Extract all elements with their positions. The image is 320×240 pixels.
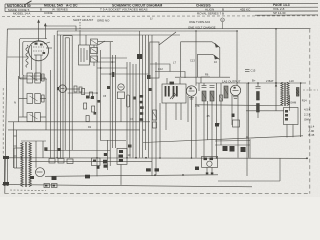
resistor R8 hatch <box>202 92 206 99</box>
line cord plug blob top <box>3 156 9 159</box>
tube V3 socket marks <box>189 98 194 100</box>
capacitor C15 plates <box>245 70 250 72</box>
tube V2b stem <box>120 99 122 122</box>
resistor row bottom right 1 <box>223 146 228 151</box>
value labels top area <box>158 59 217 77</box>
antenna coil shield box inner <box>23 42 44 77</box>
wire mid verticals cluster B <box>127 62 136 158</box>
wire padder bus vertical <box>22 76 24 117</box>
tiny labels mid <box>88 95 146 132</box>
wire long vertical v4 <box>50 70 52 158</box>
tube V4 stem <box>237 95 239 158</box>
wire long vertical v1 <box>18 76 20 122</box>
oscillator coil marks <box>81 48 87 62</box>
padder capacitor row 2 <box>19 94 46 104</box>
wire long vertical v5 <box>53 35 55 158</box>
wire diagonal to bus <box>159 32 176 45</box>
bottom margin dashed mark <box>10 189 46 192</box>
component box mid-bottom <box>117 148 127 164</box>
detector shield arrow outer <box>215 43 220 48</box>
header right table rule <box>255 14 318 16</box>
power transformer T4 primary winding <box>21 143 23 187</box>
resistor R11 dark <box>257 92 260 101</box>
B plus bus right <box>196 82 306 84</box>
wire diagonal near trimmers <box>98 41 105 45</box>
wire row bottom hline2 <box>215 144 250 146</box>
padder capacitor row 1 <box>19 73 46 83</box>
grid cap arrow left <box>37 19 40 40</box>
dashed speaker link <box>303 89 318 91</box>
detector shield box inner <box>198 54 220 77</box>
small blob y148 b <box>58 148 61 151</box>
wire x258 bottom <box>257 112 259 118</box>
oscillator shield box wall d <box>71 36 73 150</box>
resistor blob mid <box>103 160 107 164</box>
label box L5 <box>52 184 58 188</box>
blob in right-bottom box 2 <box>210 158 214 161</box>
wire long vertical v7 <box>60 35 62 158</box>
dark blob x112 <box>112 72 115 77</box>
right corner wire vertical <box>279 158 281 181</box>
wire mid verticals cluster A <box>97 42 116 166</box>
oscillator trimmer blob <box>137 54 142 59</box>
right corner wire horizontal <box>218 180 280 182</box>
wire vertical x276 from top border <box>275 29 277 111</box>
converter output shield box <box>150 42 159 78</box>
long sloped wire y142-136 <box>143 136 303 143</box>
antenna coil shield box outer <box>20 39 48 80</box>
wire vertical x196 lower <box>195 97 197 158</box>
coupling capacitor C10 <box>202 83 207 88</box>
component row y158 c <box>67 159 73 164</box>
capacitor C16 plates <box>256 83 261 88</box>
wire IF can leads <box>160 78 181 158</box>
stubs below box <box>207 168 212 173</box>
dark blob x215 <box>215 123 219 127</box>
tube V3 stem <box>191 96 193 158</box>
tube V2b oscillator triode <box>118 84 124 90</box>
tube V2b electrode <box>119 86 122 88</box>
oscillator component box <box>79 45 90 65</box>
wire vertical after V3 b <box>211 101 213 158</box>
wire vertical x216 <box>216 83 218 158</box>
tube V3 electrode <box>189 90 195 92</box>
grid lead V4 from top bus <box>236 31 238 85</box>
wire T3 leads <box>282 82 290 111</box>
wire antenna lead horizontal <box>45 26 76 31</box>
tube V2b socket box <box>117 92 124 99</box>
tube V4 output envelope <box>230 85 240 95</box>
wire vline x250 <box>249 139 251 158</box>
header right table row3 <box>273 11 286 15</box>
blob y95 a <box>86 96 89 99</box>
dark blob x107 <box>107 86 110 89</box>
C circle symbol <box>221 18 225 22</box>
dark blob x147 y75 <box>147 75 151 79</box>
wire x97 extension <box>96 158 98 176</box>
header rule line lower <box>5 10 318 13</box>
capacitor C11 <box>210 86 215 88</box>
detector shield arrow inner <box>214 55 219 60</box>
blob y95 b <box>91 96 94 99</box>
value label blobs column x140 <box>140 95 144 121</box>
component row y158 a <box>49 159 55 164</box>
wire tube stem b <box>40 61 42 82</box>
resistor row bottom right 2 <box>230 146 235 152</box>
wire secondary top bus <box>57 34 180 36</box>
wire hline y150.5 <box>46 150 110 152</box>
tube V5 marks <box>37 171 43 173</box>
resistor below IF can <box>153 110 157 120</box>
oscillator shield box top b <box>65 37 69 39</box>
wire transformer left leads <box>14 148 23 168</box>
tube V2 electrode <box>61 88 65 90</box>
wire horizontal y105.5 <box>195 104 282 107</box>
output transformer T3 secondary winding <box>287 83 289 106</box>
marks below box <box>206 172 214 174</box>
IF transformer T1 secondary winding <box>173 86 178 97</box>
volume control R10 <box>224 86 228 98</box>
wire vertical x232 <box>231 95 233 125</box>
small tube in box <box>207 161 212 166</box>
switch blob S1 <box>30 176 34 179</box>
wire verticals cluster C from top bus <box>140 31 157 176</box>
dark blob x128 y144 <box>128 145 132 148</box>
power transformer T4 core <box>25 142 28 187</box>
wire vertical x248.5 <box>248 83 250 158</box>
IF transformer T1 tuning arrows <box>170 93 177 99</box>
trimmer stack cluster <box>91 39 98 66</box>
tube V4 socket marks <box>233 97 238 99</box>
header rule line middle <box>5 6 318 9</box>
wire hline y71 <box>155 72 185 79</box>
label box L4 <box>44 184 50 188</box>
resistor R8 <box>202 91 206 101</box>
AVC bus lower <box>8 129 140 131</box>
padder capacitor row 3 <box>19 113 46 122</box>
wire hline y141 <box>215 140 250 143</box>
wire rectifier feeds <box>36 141 43 168</box>
oscillator shield box wall a <box>62 36 64 158</box>
blob x104 y153 <box>104 153 107 156</box>
dark blob x231 <box>232 114 235 118</box>
dark blob on ground bus 2 <box>155 168 160 171</box>
small box x232 <box>233 120 240 127</box>
sub header labels <box>73 17 224 30</box>
schematic outer border right (dashed) <box>309 29 311 194</box>
wire vertical x300.7 <box>300 83 302 137</box>
arrow on x276 <box>275 84 277 87</box>
tube V2 oscillator envelope <box>59 85 67 93</box>
small component b right of V2 <box>79 87 82 92</box>
header left row3 <box>13 11 224 15</box>
page edge dashed line left <box>2 88 4 156</box>
wire vertical x221 <box>220 83 222 145</box>
small dark marks left column <box>94 100 101 115</box>
output transformer T3 primary winding <box>281 83 283 106</box>
volume control hatch <box>224 88 228 96</box>
stub under C circle <box>222 22 224 29</box>
component row y158 b <box>58 159 64 164</box>
small box x92 <box>92 158 101 166</box>
wire tube stem a <box>35 61 37 82</box>
wire mid horizontal connectors <box>68 58 149 93</box>
small blob y148 a <box>44 147 47 151</box>
wire vertical x247 <box>246 83 248 176</box>
ground bus <box>45 175 218 177</box>
wire top bus under border <box>57 30 238 32</box>
small component column right of padders <box>42 74 45 102</box>
wire hline y77.2 <box>175 76 230 78</box>
schematic outer border bottom (dashed) <box>5 193 310 195</box>
line cord conductor 2 <box>7 157 9 187</box>
header bottom dashed rule <box>2 15 318 18</box>
wire vertical x188 <box>187 96 189 122</box>
tube V4 electrode <box>233 89 239 91</box>
header rule line top <box>5 2 318 5</box>
value box right <box>284 108 299 125</box>
line cord conductor 1 <box>3 157 5 187</box>
wire vertical x107.5 <box>107 140 109 170</box>
header text row2 <box>8 7 285 12</box>
wire stub x80 to box <box>79 31 81 45</box>
capacitor outline x127 <box>127 95 130 107</box>
wire hline y64 <box>150 64 170 72</box>
grid lead V3 from top bus <box>195 31 197 86</box>
resistor R9 hatch <box>210 92 214 99</box>
wire hline y140.5 <box>100 140 126 142</box>
mid bottom wire y161.7 <box>30 161 152 163</box>
resistor blob in box 2 <box>119 155 124 158</box>
antenna coil winding <box>26 45 28 67</box>
blob x104 y164.5 <box>104 165 108 168</box>
resistor below IF can 2 <box>153 122 157 128</box>
wire vertical x207.5 <box>207 101 209 140</box>
small component a right of V2 <box>74 86 77 92</box>
tube V3 IF amplifier envelope <box>186 86 196 96</box>
dark blob on ground bus 1 <box>146 168 151 171</box>
resistor blob in box 1 <box>119 150 123 153</box>
oscillator shield box wall b <box>64 38 66 150</box>
IF transformer T1 can <box>162 84 186 103</box>
header slash mark <box>24 1 32 5</box>
dark blob near 195 <box>195 167 199 171</box>
wire hline y41 <box>98 41 113 43</box>
junction dots mid <box>96 61 113 94</box>
schematic outer border top <box>7 28 310 30</box>
wire long vertical v6 <box>56 31 58 158</box>
grid cap arrow right <box>44 23 47 39</box>
oscillator shield box wall c <box>68 38 70 158</box>
header left end tick <box>4 4 6 12</box>
tube V5 rectifier envelope <box>36 168 45 177</box>
AVC bus upper <box>8 121 150 123</box>
choke blob <box>85 175 90 179</box>
blob x96 y166 <box>97 166 100 169</box>
dark blob x148 <box>149 88 152 91</box>
component box right-bottom <box>202 156 218 167</box>
detector shield box outer <box>181 42 220 77</box>
main bottom bus <box>7 157 307 160</box>
chassis long line <box>2 185 252 187</box>
tube V1 converter envelope <box>29 41 49 61</box>
resistor row bottom right 3 <box>241 147 246 152</box>
wire stub x86 to box <box>85 35 87 45</box>
wire x121 extension <box>120 165 122 185</box>
header text row1 <box>7 3 290 8</box>
dark blob x134 <box>133 97 136 100</box>
antenna coil core line <box>31 45 33 70</box>
oscillator shield box top a <box>63 35 72 37</box>
resistor on x221 <box>220 95 223 101</box>
resistor R12 dark <box>257 104 260 113</box>
wire left border to V1 <box>7 56 28 58</box>
schematic outer border left <box>5 29 8 194</box>
IF transformer T1 top trimmer blob <box>170 82 175 85</box>
IF transformer T1 primary winding <box>165 86 170 97</box>
resistor R9 <box>210 91 214 101</box>
wire long vertical v3 <box>45 79 47 130</box>
value labels mid right <box>195 104 220 126</box>
wires below value box <box>287 125 293 138</box>
resistor R13 hatched <box>296 88 299 97</box>
ladder wires left of transformer <box>14 122 17 168</box>
wire horizontal y110.8 <box>246 110 284 112</box>
small components left column <box>82 89 95 122</box>
line cord plug blob bottom <box>3 182 9 186</box>
blob in right-bottom box 1 <box>204 158 208 161</box>
output transformer T3 core <box>284 83 287 107</box>
value box text rows <box>304 108 315 138</box>
tube V1 electrodes <box>33 42 52 61</box>
power transformer T4 secondary winding <box>29 143 31 187</box>
wire transformer top lead <box>21 140 46 142</box>
wire stub x201 up <box>201 77 210 83</box>
electrolytic capacitor blob <box>52 177 57 181</box>
leader line under shift adjust <box>79 22 81 31</box>
wire vertical after V3 <box>203 101 205 158</box>
wire vertical x199 stub <box>198 83 200 91</box>
